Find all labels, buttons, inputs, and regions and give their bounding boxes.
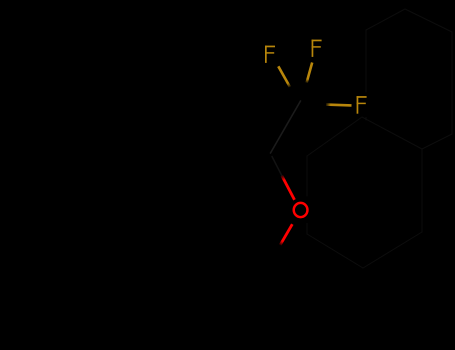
ring edge lower-left [307,234,363,268]
bridge connector [422,134,452,149]
bridge right vertical [451,32,453,134]
ring edge upper-left [307,117,362,156]
bond C2-O (red half) [282,176,295,200]
ring edge upper-right [362,117,422,149]
bond C-F1 (olive half) [278,66,290,87]
atom label F1 [265,46,275,63]
wire C1-C2 (CF3 carbon to ether carbon) [271,101,301,153]
bond C-F3 (olive half) [326,103,352,106]
ring edge left vertical (gap at O label) [306,156,308,196]
wire C2-O dark half [272,157,282,176]
bridge left vertical (gap at F3 label) [365,30,367,92]
bridge roof left [366,9,405,30]
atom label F2 [312,40,322,57]
bridge roof right [405,9,452,32]
atom label F3 [357,96,367,114]
bond C-F2 (olive half) [307,63,313,83]
faint carbon cage [307,9,452,268]
atom label O [294,203,308,217]
ring edge lower-right [363,232,422,268]
ring edge right vertical [421,149,423,232]
bond O-CH3 (red half) [280,224,292,245]
